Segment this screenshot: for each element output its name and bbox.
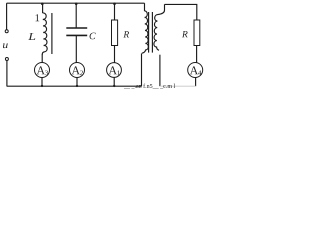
- wire: R to A1: [114, 46, 116, 63]
- ammeter label A1: [109, 66, 120, 75]
- wire: secondary bottom (faint): [160, 85, 196, 87]
- ammeter A4: [188, 63, 203, 78]
- terminal upper (source): [5, 30, 8, 33]
- wire: primary bottom lead: [141, 53, 143, 86]
- ammeter label A4: [190, 66, 202, 75]
- wire: C to A2: [75, 36, 77, 63]
- wire: L branch drop: [42, 3, 44, 13]
- wire: A4 to secondary bottom: [195, 78, 197, 87]
- node dot top L: [41, 3, 44, 6]
- transformer primary winding: [142, 11, 148, 53]
- wire: R branch drop: [114, 3, 116, 20]
- resistor R (box): [112, 20, 118, 46]
- wire: A3 to bottom: [41, 78, 43, 87]
- svg-text:__ _.an f.n5__ _c.m l: __ _.an f.n5__ _c.m l: [123, 83, 175, 89]
- wire: left rail lower: [6, 61, 8, 86]
- wire: R2 to A4: [196, 46, 198, 64]
- wire: C branch drop: [75, 3, 77, 27]
- capacitor C top plate: [66, 27, 87, 29]
- transformer core line 1: [148, 12, 150, 53]
- wire: left rail upper: [6, 3, 8, 29]
- node dot bottom A3: [41, 85, 43, 87]
- label u: [3, 43, 8, 48]
- label R primary-side: [123, 31, 129, 37]
- wire: secondary top: [165, 4, 197, 20]
- ammeter A1: [107, 63, 122, 78]
- wire: A2 to bottom: [76, 78, 78, 87]
- inductor L core line: [51, 13, 53, 54]
- label C: [90, 33, 96, 40]
- label L: [28, 33, 35, 40]
- ammeter label A2: [72, 66, 83, 75]
- wire: A1 to bottom: [113, 77, 115, 86]
- inductor L coil: [42, 13, 47, 55]
- capacitor C bottom plate: [66, 34, 87, 36]
- node dot top C: [75, 3, 78, 6]
- wire: secondary bottom lead: [159, 55, 161, 86]
- resistor R secondary (box): [194, 20, 200, 46]
- wire: bottom bus: [7, 85, 142, 87]
- label R secondary-side: [182, 31, 188, 37]
- label 1: [36, 14, 40, 21]
- wire: L to A3: [41, 54, 43, 62]
- node dot top R: [113, 3, 116, 6]
- wire: primary top corner: [144, 3, 146, 11]
- node dot bottom A1: [113, 85, 115, 87]
- transformer core line 2: [151, 12, 153, 53]
- node dot bottom A2: [76, 85, 78, 87]
- ammeter A2: [70, 63, 85, 78]
- ammeter label A3: [37, 66, 48, 75]
- transformer secondary winding: [154, 4, 165, 50]
- wire: top bus: [7, 2, 145, 4]
- ammeter A3: [35, 63, 50, 78]
- terminal lower (source): [5, 58, 8, 61]
